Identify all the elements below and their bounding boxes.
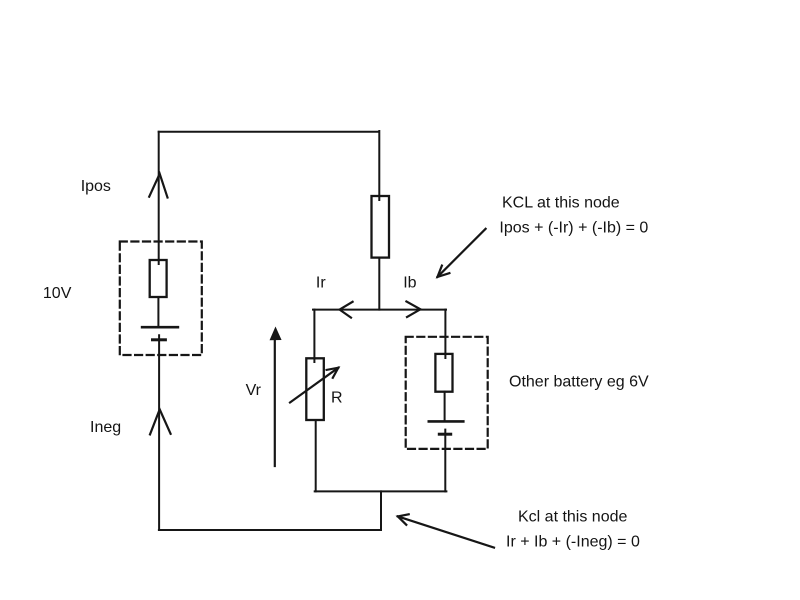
svg-text:KCL at this node: KCL at this node	[502, 194, 620, 211]
svg-text:Ipos: Ipos	[81, 178, 111, 195]
svg-text:Ipos + (-Ir) + (-Ib) = 0: Ipos + (-Ir) + (-Ib) = 0	[499, 220, 648, 237]
svg-text:Kcl at this node: Kcl at this node	[518, 508, 628, 525]
svg-text:Ir: Ir	[316, 274, 326, 291]
svg-text:Ineg: Ineg	[90, 419, 121, 436]
svg-text:Vr: Vr	[246, 382, 262, 399]
svg-text:Ir + Ib + (-Ineg) = 0: Ir + Ib + (-Ineg) = 0	[506, 534, 640, 551]
svg-text:Other battery eg 6V: Other battery eg 6V	[509, 373, 649, 390]
svg-text:Ib: Ib	[403, 274, 416, 291]
svg-text:10V: 10V	[43, 285, 72, 302]
svg-text:R: R	[331, 390, 343, 407]
